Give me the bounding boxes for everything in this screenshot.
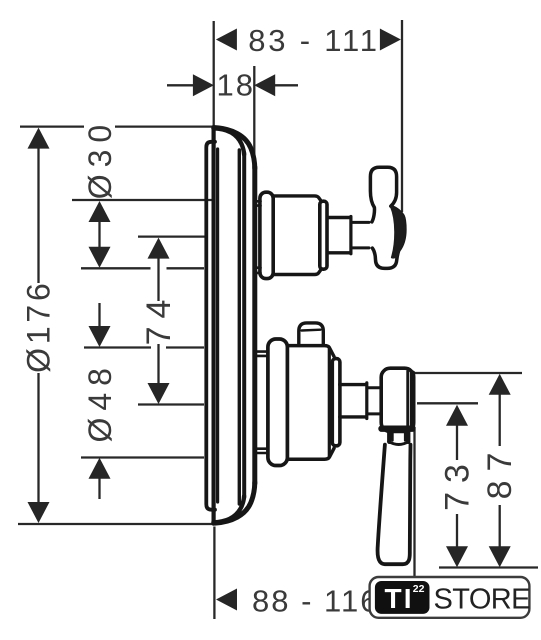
lower sleeve front ring — [332, 359, 340, 446]
hub bottom heavy edge — [382, 426, 413, 432]
O176 top arrow — [28, 128, 50, 149]
upper sleeve front ring — [320, 201, 327, 269]
extension line right of 83-111 (front of upper handle) — [401, 20, 403, 212]
logo black badge — [375, 581, 430, 614]
O30 extension lines — [72, 199, 213, 201]
upper stem part2 — [352, 222, 369, 248]
plate top cap outer — [215, 128, 255, 169]
upper mounting tabs — [257, 201, 261, 205]
svg-text:22: 22 — [413, 583, 425, 595]
svg-text:18: 18 — [217, 68, 255, 103]
svg-text:STORE: STORE — [434, 584, 531, 616]
hub front heavy edge — [410, 373, 415, 427]
bottom right shared line — [439, 566, 538, 568]
plate front face line — [242, 153, 246, 498]
lower stem narrow part — [368, 388, 381, 414]
wall flange of plate — [206, 142, 215, 510]
svg-text:74: 74 — [140, 292, 178, 346]
87 tails — [499, 394, 501, 447]
svg-text:Ø30: Ø30 — [82, 118, 118, 199]
O48 lower outside arrow — [89, 458, 111, 479]
74 bottom arrow — [148, 383, 170, 404]
upper cross handle outline — [370, 167, 405, 268]
upper sleeve rear band — [260, 192, 273, 278]
logo outer box — [370, 577, 530, 618]
extension line right of 18 (plate front) — [253, 66, 255, 159]
upper stem end cap — [349, 217, 352, 254]
plate outer silhouette — [252, 167, 257, 484]
lever neck inner lines — [393, 432, 405, 441]
O30 tail between arrows — [98, 220, 100, 249]
87 bottom arrow — [489, 546, 511, 567]
plate top cap inner — [213, 128, 244, 154]
87 top line — [410, 372, 522, 374]
lever neck sides — [389, 432, 408, 442]
top line of plate (O176 top) — [20, 125, 84, 127]
svg-text:87: 87 — [481, 444, 519, 500]
88-116 left extension — [213, 527, 215, 620]
upper handle front bulge (heavy ink) — [391, 206, 405, 257]
74 extension lines — [138, 235, 205, 237]
lower mounting tabs — [257, 352, 268, 356]
lever neck bottom arc — [389, 442, 409, 445]
upper sleeve body — [273, 196, 321, 275]
svg-text:88 - 116: 88 - 116 — [252, 584, 379, 619]
lower stem end cap — [365, 383, 368, 419]
lever outline — [378, 445, 411, 565]
plate back edge line A — [212, 127, 216, 524]
svg-text:73: 73 — [439, 455, 477, 511]
knob top face chord — [302, 329, 321, 332]
87 top arrow — [489, 374, 511, 395]
svg-text:83 - 111: 83 - 111 — [248, 23, 380, 58]
18 right arrow — [254, 74, 275, 96]
lower stem — [340, 385, 366, 417]
plate front face inner line — [238, 150, 241, 504]
lower sleeve body — [287, 346, 334, 460]
83-111 left arrow — [216, 29, 237, 51]
extension line left (wall plane) top — [213, 21, 215, 127]
88-116 left arrow — [216, 589, 237, 611]
O48 tails (outside arrows) — [98, 303, 100, 328]
svg-text:Ø176: Ø176 — [21, 279, 57, 372]
83-111 right arrow — [380, 29, 401, 51]
74 tails — [157, 257, 159, 301]
lower sleeve right edge — [328, 349, 331, 457]
bottom line of plate (O176 bottom) — [18, 523, 213, 525]
svg-text:Ø48: Ø48 — [82, 361, 118, 442]
73 top line (axis) — [417, 402, 478, 404]
74 top arrow — [148, 238, 170, 259]
73 bottom arrow — [446, 546, 468, 567]
O176 bottom arrow — [28, 502, 50, 523]
plate back edge line B — [216, 149, 219, 502]
plate bottom cap outer — [215, 482, 255, 523]
safety stop knob — [299, 323, 324, 344]
leader lines of 18 — [167, 84, 195, 86]
lower sleeve rear band — [268, 339, 288, 466]
lever hub — [381, 368, 414, 431]
88-116 right extension (front of lever) — [413, 427, 415, 576]
plate bottom cap inner — [213, 496, 244, 522]
73 top arrow — [446, 405, 468, 426]
18 left arrow — [193, 74, 214, 96]
O48 extension lines — [84, 346, 151, 348]
hub front face inner line — [406, 371, 409, 429]
svg-text:TI: TI — [385, 583, 414, 614]
O30 bottom arrow — [89, 247, 111, 268]
upper stem part1 — [328, 218, 350, 253]
O48 upper outside arrow — [89, 326, 111, 347]
73 tails — [456, 425, 458, 461]
O30 top arrow — [89, 201, 111, 222]
O176 dimension verticals — [37, 148, 39, 284]
